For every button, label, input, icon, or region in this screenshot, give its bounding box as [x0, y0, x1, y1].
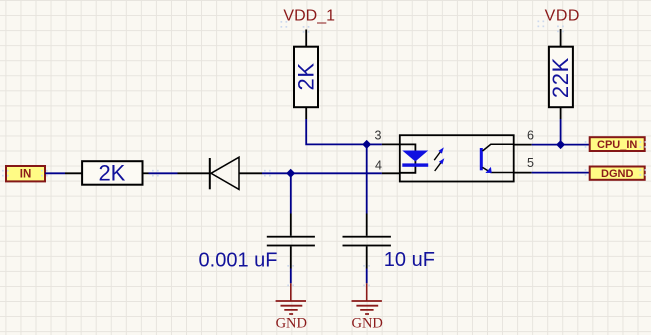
diode cathode pin: [178, 172, 210, 174]
LED anode triangle: [402, 151, 428, 162]
svg-text:CPU_IN: CPU_IN: [597, 139, 637, 151]
pin (black) below 22K: [560, 107, 562, 119]
ground GND (right): [351, 283, 382, 331]
port CPU_IN: [590, 137, 645, 151]
diode anode pin: [239, 172, 262, 174]
LED emission arrow 2: [435, 162, 442, 171]
diode D1 cathode bar: [209, 158, 211, 189]
svg-text:GND: GND: [276, 315, 307, 331]
LED emission arrow 1: [434, 151, 441, 160]
ground GND (left): [276, 283, 307, 331]
capacitor C1 bottom pin: [290, 246, 292, 268]
wire node down to 10uF cap: [366, 144, 368, 213]
pin 3 stub: [382, 143, 400, 145]
phototransistor collector: [483, 144, 514, 151]
phototransistor emitter: [483, 167, 514, 172]
svg-text:GND: GND: [351, 315, 382, 331]
emitter arrow head: [485, 167, 491, 173]
phototransistor base bar: [480, 148, 483, 170]
resistor 22K (vertical, pull-up to VDD): [548, 47, 573, 107]
capacitor C1 top pin: [290, 214, 292, 236]
svg-text:6: 6: [527, 129, 534, 143]
svg-text:DGND: DGND: [601, 168, 633, 180]
hotspot marker dots: [2, 21, 646, 287]
wire pin6 to CPU_IN: [532, 144, 590, 146]
junction at pin3 node: [362, 140, 371, 149]
svg-text:IN: IN: [20, 168, 32, 180]
svg-text:4: 4: [375, 159, 382, 173]
power port VDD_1: [283, 7, 335, 24]
wire VDD_1 to R top: [305, 30, 307, 48]
junction at CPU_IN node: [556, 140, 565, 149]
svg-text:2K: 2K: [294, 62, 319, 90]
wire node to pin3: [367, 143, 382, 145]
diode D1 triangle: [211, 157, 239, 189]
resistor 2K (vertical, pull-up to VDD_1): [294, 47, 319, 107]
pin 5 stub: [514, 172, 532, 174]
wire node down to 0.001uF cap: [290, 173, 292, 213]
capacitor C2 10uF plates: [343, 236, 391, 247]
port DGND: [590, 167, 645, 181]
wire C1 to GND: [290, 269, 292, 284]
resistor 2K (series, horizontal): [82, 161, 142, 186]
right pin of series 2K: [143, 172, 149, 174]
wire 22K to node: [560, 119, 562, 145]
wire node to pin4: [291, 172, 382, 174]
pin (black) below 2K resistor: [305, 107, 307, 119]
junction at cap node: [286, 169, 295, 178]
wire diode to node: [262, 172, 291, 174]
svg-text:VDD: VDD: [545, 8, 580, 25]
wire C2 to GND: [366, 269, 368, 284]
wire VDD to 22K top: [560, 29, 562, 47]
svg-text:VDD_1: VDD_1: [283, 7, 335, 24]
port IN: [6, 166, 45, 181]
svg-text:2K: 2K: [98, 161, 125, 186]
svg-text:5: 5: [527, 156, 534, 170]
LED internal path: [400, 144, 416, 172]
left pin of 2K series resistor: [65, 172, 82, 174]
LED cathode bar: [402, 163, 428, 166]
svg-text:0.001 uF: 0.001 uF: [199, 250, 278, 272]
wire from 2K down and right to node: [306, 119, 367, 144]
capacitor C2 bottom pin: [366, 246, 368, 268]
svg-text:22K: 22K: [548, 57, 573, 98]
pin 4 stub: [382, 172, 400, 174]
wire IN port to R left pin: [45, 172, 65, 174]
svg-text:10 uF: 10 uF: [384, 249, 435, 271]
wire 2K to diode: [149, 172, 178, 174]
capacitor C2 top pin: [366, 214, 368, 236]
wire pin5 to DGND: [532, 172, 590, 174]
capacitor C1 0.001uF plates: [267, 236, 315, 247]
optocoupler U1 body: [400, 135, 514, 181]
svg-text:3: 3: [375, 129, 382, 143]
pin 6 stub: [514, 144, 532, 146]
